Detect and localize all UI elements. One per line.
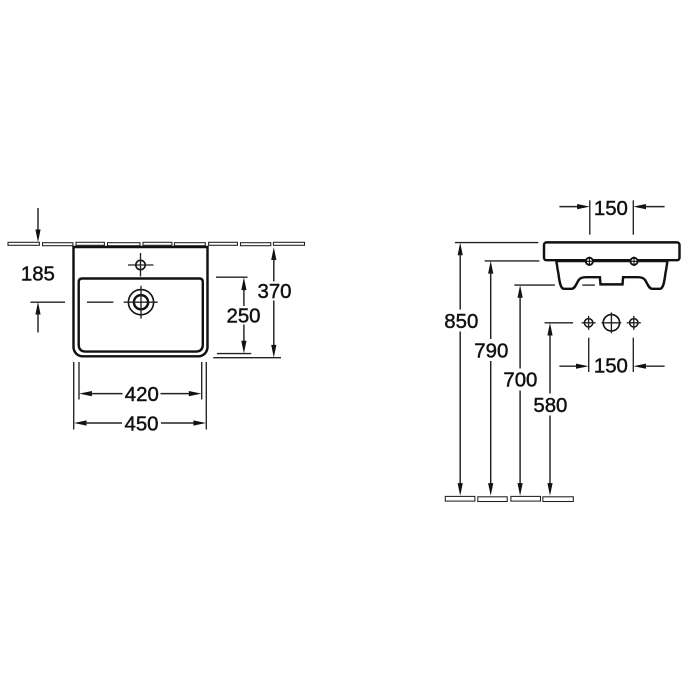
mounting cross left <box>582 316 596 330</box>
dimension 790 <box>474 261 539 496</box>
svg-text:420: 420 <box>125 384 159 406</box>
dimension 850 <box>444 243 538 496</box>
basin body outline (front view) <box>556 261 667 289</box>
svg-text:150: 150 <box>594 198 628 220</box>
dimension 450 <box>74 362 207 435</box>
svg-text:450: 450 <box>124 413 158 435</box>
svg-text:790: 790 <box>474 340 508 362</box>
basin body top edge (front view) <box>556 260 669 262</box>
drain centerline extension <box>30 301 113 303</box>
dimension 580 <box>533 323 573 496</box>
svg-text:850: 850 <box>444 311 478 333</box>
dimension 700 <box>503 285 595 496</box>
basin outer rim (top view) <box>74 247 208 356</box>
fixing hole left (front view) <box>585 257 594 266</box>
floor line (front view) <box>445 496 573 501</box>
wall line (top view) <box>8 242 305 245</box>
tap hole symbol <box>128 253 154 277</box>
dimension 370 <box>213 247 291 357</box>
dimension 185 <box>21 208 55 333</box>
svg-text:250: 250 <box>226 306 260 328</box>
basin rim (front view) <box>544 242 680 260</box>
dimension 150 bottom <box>559 338 664 378</box>
fixing hole right (front view) <box>629 257 638 266</box>
svg-text:185: 185 <box>21 263 55 285</box>
mounting cross right <box>627 316 641 330</box>
mounting cross center <box>602 312 622 333</box>
svg-text:580: 580 <box>533 395 567 417</box>
dimension 150 top <box>559 198 664 235</box>
dimension 250 <box>216 277 261 353</box>
svg-text:370: 370 <box>257 281 291 303</box>
drain symbol <box>124 286 158 319</box>
svg-text:700: 700 <box>503 370 537 392</box>
dimension 420 <box>79 362 202 406</box>
svg-text:150: 150 <box>594 355 628 377</box>
basin inner bowl (top view) <box>79 279 203 352</box>
